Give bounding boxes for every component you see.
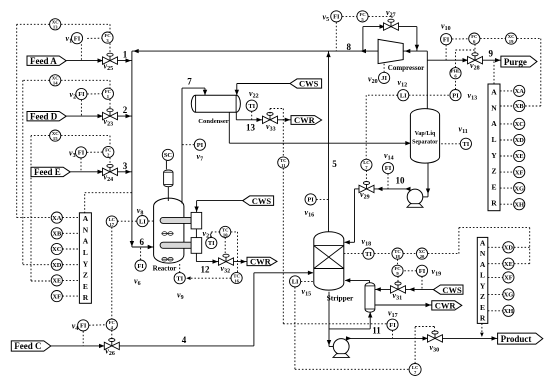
signal TI v18 to stripper <box>344 253 363 255</box>
instrument XC 15 <box>50 130 61 141</box>
wire reactor inlet line 6 <box>132 246 154 248</box>
wire separator bottoms <box>416 163 428 197</box>
flag CWR reboiler <box>432 301 462 311</box>
valve v29 <box>359 182 374 201</box>
svg-text:XD: XD <box>515 137 525 144</box>
signal analyzer to line 6 header <box>85 193 132 214</box>
instrument XC (purge analyzer) <box>514 118 525 129</box>
flag Feed C <box>11 341 51 351</box>
svg-text:12: 12 <box>201 265 211 275</box>
signal XC purge to box <box>500 123 514 125</box>
reactor cooling coil upper <box>160 217 191 223</box>
signal XB to analyzer box <box>62 232 79 234</box>
arrow feed into reboiler <box>368 312 372 318</box>
svg-text:N: N <box>83 225 89 234</box>
svg-text:XC: XC <box>515 121 525 128</box>
svg-text:A: A <box>480 238 486 247</box>
svg-text:XC: XC <box>52 246 62 253</box>
arrow vapor into stripper <box>345 278 351 282</box>
separator vessel <box>410 109 439 164</box>
flag CWS reactor <box>243 196 274 206</box>
label stream 8 <box>347 42 352 52</box>
signal FI v3 to line 3 <box>80 158 82 172</box>
flag Product <box>498 333 543 344</box>
arrow into product flag <box>492 336 498 340</box>
svg-text:TI: TI <box>208 240 215 247</box>
signal FC5 to valve v27 <box>368 16 392 19</box>
svg-text:FI: FI <box>389 322 396 329</box>
signal TC10 to TC16 <box>231 232 238 273</box>
instrument TI v18 <box>362 237 375 259</box>
svg-text:3: 3 <box>123 161 128 171</box>
arrow line 1 into recycle header <box>126 58 132 62</box>
arrow into stripper pump <box>335 344 341 348</box>
signal XG product to box <box>488 293 503 295</box>
svg-text:1: 1 <box>123 50 128 60</box>
valve v30 <box>428 331 443 353</box>
svg-text:XH: XH <box>514 201 524 208</box>
wire condenser outlet to separator <box>229 112 411 143</box>
signal XC13 to FC3 <box>61 24 110 32</box>
wire line 10 to stripper <box>345 189 360 242</box>
instrument FC 1 <box>102 88 113 99</box>
arrow line 6 into reactor <box>148 245 154 249</box>
signal PHL6 to v28 stem <box>456 50 476 68</box>
instrument XB (feed analyzer) <box>51 228 62 239</box>
svg-text:FI: FI <box>419 268 426 275</box>
svg-text:E: E <box>491 183 496 192</box>
wire feed E line 3 <box>70 171 132 173</box>
instrument FC 4 <box>106 319 117 330</box>
instrument PI v16 <box>305 194 317 219</box>
arrow into valve v25 <box>98 58 104 62</box>
instrument FI v2 <box>70 88 88 100</box>
signal TI v9 to reactor bottom <box>179 264 181 273</box>
valve v23 <box>103 109 118 128</box>
instrument LI v8 <box>137 206 148 227</box>
instrument XC 14 <box>50 75 61 86</box>
instrument FC 3 <box>102 32 113 43</box>
flag CWS condenser <box>290 79 322 89</box>
svg-text:XB: XB <box>515 103 525 110</box>
arrow into valve v31 <box>409 287 415 291</box>
instrument XF (feed analyzer) <box>51 291 62 302</box>
label Reactor <box>153 265 177 273</box>
svg-text:Feed D: Feed D <box>30 111 58 121</box>
arrow into valve v23 <box>98 114 104 118</box>
arrow into valve v32 <box>213 259 219 263</box>
svg-text:LI: LI <box>139 218 146 225</box>
svg-text:CWS: CWS <box>299 79 319 89</box>
instrument XF (product analyzer) <box>503 272 514 283</box>
arrow into valve v27 <box>380 24 386 28</box>
stripper pump <box>333 339 349 358</box>
svg-text:Reactor: Reactor <box>153 265 177 273</box>
reactor stirrer lower <box>162 257 174 261</box>
svg-text:L: L <box>491 135 496 144</box>
label stream 9 <box>489 49 494 59</box>
instrument XE (purge analyzer) <box>514 150 525 161</box>
signal XC14 to FC1 <box>61 80 110 88</box>
svg-text:17: 17 <box>110 222 115 227</box>
wire reboiler outlet to CWR <box>375 304 432 306</box>
signal XG purge to box <box>500 187 514 189</box>
label stream 4 <box>182 335 187 345</box>
svg-text:Y: Y <box>480 281 486 290</box>
svg-text:XD: XD <box>504 245 514 252</box>
analyzer box stream 9 <box>488 84 500 211</box>
svg-text:L: L <box>480 271 485 280</box>
signal LC7 to valve v30 <box>415 327 434 364</box>
arrow line 3 into recycle header <box>126 170 132 174</box>
condenser vessel <box>191 95 240 112</box>
instrument SC agitator speed <box>162 149 173 160</box>
flag CWR reactor <box>247 257 277 267</box>
analyzer box stream 11 <box>477 237 488 323</box>
wire stripper bottoms line <box>329 292 340 347</box>
signal FI v10 to FC6 <box>452 38 469 40</box>
signal TC10 to valve v32 <box>224 238 226 254</box>
instrument LC 17 <box>106 216 117 227</box>
svg-text:5: 5 <box>332 159 337 169</box>
instrument XC 19 <box>506 33 517 44</box>
arrow sep downcomer <box>426 189 430 195</box>
signal FI v17 to line 11 <box>392 330 394 338</box>
arrow line 9 into purge flag <box>495 58 501 62</box>
instrument TC 11 <box>278 157 289 168</box>
svg-text:13: 13 <box>246 123 256 133</box>
svg-text:4: 4 <box>182 335 187 345</box>
arrow into CWR reboiler <box>426 303 432 307</box>
svg-text:E: E <box>83 282 88 291</box>
signal PI v16 to line 5 <box>316 198 328 200</box>
instrument LC 7 <box>409 364 421 376</box>
instrument TC 10 <box>220 226 231 237</box>
arrow into valve v29 <box>377 187 383 191</box>
flag Feed E <box>31 167 70 177</box>
signal FI v1 to line 1 <box>80 44 82 60</box>
arrow line 13 into CWR <box>285 118 291 122</box>
instrument LI v12 <box>398 78 409 101</box>
svg-text:L: L <box>83 248 88 257</box>
arrow CWS into reboiler <box>375 287 381 291</box>
label Stripper <box>327 294 354 303</box>
label stream 2 <box>123 105 128 115</box>
arrow line 4 into stripper <box>308 271 314 275</box>
svg-text:11: 11 <box>372 326 381 336</box>
svg-text:XF: XF <box>504 275 513 282</box>
svg-text:Vap/Liq: Vap/Liq <box>415 131 436 137</box>
valve v24 <box>103 164 118 183</box>
signal LC17 to LI v8 <box>117 220 136 222</box>
arrow line 12 into CWR <box>241 259 247 263</box>
arrow into separator <box>405 141 411 145</box>
instrument FI v3 <box>69 147 87 159</box>
svg-text:Condenser: Condenser <box>198 118 228 125</box>
svg-text:XE: XE <box>52 278 61 285</box>
instrument XD (feed analyzer) <box>51 259 62 270</box>
signal XA purge to box <box>500 90 514 92</box>
signal XE product to box <box>488 263 503 265</box>
svg-text:XG: XG <box>514 185 524 192</box>
svg-text:Purge: Purge <box>504 57 527 67</box>
wire product line 11 <box>346 337 498 339</box>
agitator motor <box>164 170 173 201</box>
signal XC13 to XA <box>17 24 51 217</box>
wire condenser CW outlet line 13 <box>236 112 291 120</box>
signal FI v5 to FC5 <box>342 15 357 17</box>
svg-text:Product: Product <box>501 334 532 344</box>
signal XC19 to XB purge analyzer <box>517 39 541 106</box>
compressor <box>378 39 403 63</box>
flag CWS reboiler <box>433 285 463 295</box>
instrument XD (purge analyzer) <box>514 134 525 145</box>
svg-text:N: N <box>480 249 486 258</box>
arrow into sep pump <box>416 195 422 199</box>
wire top recycle line 8 <box>132 50 427 52</box>
wire feed D line 2 <box>66 115 132 117</box>
signal valve v33 to TC11 riser <box>270 109 283 157</box>
wire separator overhead to compressor <box>426 51 428 109</box>
arrow line 10 into stripper <box>344 240 350 244</box>
signal XE product to bus <box>514 263 530 265</box>
svg-text:A: A <box>491 119 497 128</box>
svg-text:CWS: CWS <box>442 285 462 295</box>
svg-text:XE: XE <box>504 261 513 268</box>
wire bypass line v27 <box>363 27 417 51</box>
signal TI v18 to TC18 <box>374 253 392 255</box>
instrument XB (purge analyzer) <box>514 100 525 111</box>
flag Feed A <box>27 56 66 66</box>
svg-text:TI: TI <box>176 275 183 282</box>
svg-text:Feed A: Feed A <box>30 56 57 66</box>
svg-text:9: 9 <box>489 49 494 59</box>
instrument FI v4 <box>72 320 89 332</box>
signal LI v12 to LC separator <box>366 95 397 159</box>
svg-text:14: 14 <box>53 81 58 86</box>
signal TC11 down to FI v17 row <box>283 168 387 324</box>
svg-text:XA: XA <box>515 88 525 95</box>
instrument XC (feed analyzer) <box>51 243 62 254</box>
svg-text:XF: XF <box>53 293 62 300</box>
svg-text:Z: Z <box>491 167 496 176</box>
svg-text:R: R <box>480 314 486 323</box>
svg-text:10: 10 <box>223 232 228 237</box>
arrow recycle flow left <box>133 49 139 53</box>
label stream 3 <box>123 161 128 171</box>
wire CWS to reboiler <box>375 288 434 290</box>
svg-text:A: A <box>480 260 486 269</box>
arrow bottoms down <box>327 340 331 346</box>
svg-text:XD: XD <box>52 262 62 269</box>
arrow recycle flow left of compressor <box>361 49 367 53</box>
wire CWS to coil header <box>197 201 243 212</box>
svg-text:R: R <box>83 293 89 302</box>
valve v31 <box>391 282 406 302</box>
coil header lower <box>191 238 202 254</box>
svg-text:LI: LI <box>292 279 299 286</box>
arrow bypass down to suction <box>415 45 419 51</box>
svg-text:Separator: Separator <box>412 140 438 146</box>
signal analyzer9 to purge line <box>493 60 495 84</box>
arrow into valve v33 <box>257 118 263 122</box>
instrument XD (product analyzer) <box>503 242 514 253</box>
coil header upper <box>191 212 202 229</box>
signal PI v13 to PHL6 <box>455 79 457 90</box>
svg-text:LI: LI <box>400 92 407 99</box>
arrow into valve v26 <box>99 344 105 348</box>
svg-text:Compressor: Compressor <box>388 64 424 72</box>
valve v33 <box>263 112 278 132</box>
instrument XG (product analyzer) <box>503 289 514 300</box>
signal XA to analyzer box <box>62 217 79 219</box>
svg-text:XF: XF <box>515 169 524 176</box>
reactor cooling coil lower <box>160 242 191 248</box>
svg-text:TI: TI <box>248 103 255 110</box>
instrument XE (product analyzer) <box>503 258 514 269</box>
signal XE to analyzer box <box>62 279 79 281</box>
svg-text:N: N <box>491 103 497 112</box>
svg-text:PI: PI <box>307 197 314 204</box>
signal LI v15 to stripper <box>301 280 314 282</box>
stripper packing section <box>314 246 344 269</box>
wire stripper to reboiler feed <box>329 312 370 329</box>
arrow line 11 from pump <box>346 336 352 340</box>
svg-text:Stripper: Stripper <box>327 294 354 303</box>
arrow line 5 into line 8 <box>326 52 330 58</box>
wire recycle header vertical <box>131 51 133 247</box>
arrow header down to reactor <box>130 241 134 247</box>
arrow line 10 from pump <box>405 187 411 191</box>
signal FC6 to valve v28 <box>474 44 476 52</box>
svg-text:8: 8 <box>347 42 352 52</box>
svg-text:20: 20 <box>420 254 425 259</box>
label stream 12 <box>201 265 211 275</box>
wire coil outlet line 12 <box>196 253 247 261</box>
svg-text:FI: FI <box>137 263 144 270</box>
svg-text:XH: XH <box>504 308 514 315</box>
svg-text:XA: XA <box>52 215 62 222</box>
arrow into compressor <box>405 49 411 53</box>
signal LC17 to FC4 <box>111 227 113 319</box>
signal LI v12 to PI v13 <box>409 94 450 96</box>
label v21 <box>203 229 213 240</box>
wire line 10 pump to v29 <box>374 188 409 190</box>
svg-text:XB: XB <box>52 231 62 238</box>
signal FC9 to valve v31 <box>397 276 399 282</box>
instrument XA (purge analyzer) <box>514 85 525 96</box>
instrument FI v10 <box>441 22 452 45</box>
svg-text:A: A <box>491 88 497 97</box>
label stream 1 <box>123 50 128 60</box>
wire purge line 9 <box>427 59 501 61</box>
instrument TI v9 <box>174 273 185 301</box>
flag Purge <box>501 56 537 67</box>
svg-text:Z: Z <box>480 292 485 301</box>
signal FC4 to valve v26 <box>111 330 113 338</box>
signal FI v5 to line 8 <box>335 22 337 51</box>
label stream 11 <box>372 326 381 336</box>
instrument FI v19 <box>416 265 441 277</box>
valve v25 <box>103 53 118 72</box>
instrument TI v22 <box>246 89 258 111</box>
svg-text:CWS: CWS <box>252 196 272 206</box>
instrument JI v20 <box>368 72 390 85</box>
signal FI v3 to FC2 <box>87 151 103 153</box>
arrow CWS into header <box>194 207 198 213</box>
instrument FC 5 <box>357 11 368 22</box>
svg-text:TI: TI <box>365 251 372 258</box>
flag CWR condenser <box>291 115 322 125</box>
label Vap/Liq Separator <box>412 131 438 145</box>
instrument PI v7 <box>194 139 205 162</box>
signal XD to analyzer box <box>62 264 79 266</box>
wire feed A line 1 <box>66 60 132 62</box>
svg-text:FI: FI <box>80 323 87 330</box>
instrument PI v13 <box>450 90 477 102</box>
svg-text:FI: FI <box>385 165 392 172</box>
instrument FI v17 <box>387 309 398 331</box>
instrument TC 16 <box>231 272 242 283</box>
signal FI v19 to CWS line <box>421 276 423 289</box>
arrow line 7 into condenser <box>203 90 207 96</box>
signal LI v8 to reactor <box>148 220 153 222</box>
label Compressor <box>388 64 424 72</box>
analyzer box stream 6 <box>79 213 91 303</box>
label stream 5 <box>332 159 337 169</box>
svg-text:CWR: CWR <box>250 257 272 267</box>
instrument FI v6 <box>134 260 146 287</box>
instrument XH (product analyzer) <box>503 305 514 316</box>
label stream 7 <box>187 77 192 87</box>
svg-text:JI: JI <box>381 75 387 82</box>
signal XF purge to box <box>500 171 514 173</box>
wire CWS to condenser <box>237 84 290 96</box>
signal PI v7 to line 7 <box>182 144 194 146</box>
label stream 6 <box>140 237 145 247</box>
instrument XA (feed analyzer) <box>51 212 62 223</box>
instrument LI v15 <box>290 276 312 298</box>
instrument XF (purge analyzer) <box>514 167 525 178</box>
svg-text:CWR: CWR <box>294 115 316 125</box>
svg-text:13: 13 <box>53 25 58 30</box>
instrument PHL 6 <box>450 68 461 79</box>
svg-text:CWR: CWR <box>435 301 457 311</box>
signal FI v2 to line 2 <box>80 100 82 116</box>
svg-text:Z: Z <box>83 271 88 280</box>
signal FI v2 to FC1 <box>87 93 102 95</box>
svg-text:FI: FI <box>333 14 340 21</box>
svg-text:2: 2 <box>123 105 128 115</box>
arrow into valve v24 <box>98 170 104 174</box>
separator pump <box>407 189 423 207</box>
svg-text:FI: FI <box>74 35 81 42</box>
svg-text:16: 16 <box>234 278 239 283</box>
signal LC to valve v29 <box>365 170 367 181</box>
signal TI v11 to separator <box>439 143 460 145</box>
svg-text:Feed C: Feed C <box>14 341 41 351</box>
instrument XG (purge analyzer) <box>514 183 525 194</box>
instrument TC 18 <box>392 248 403 259</box>
svg-text:15: 15 <box>53 136 58 141</box>
signal XF to analyzer box <box>62 295 79 297</box>
signal XD product to box <box>488 246 503 248</box>
instrument FI v14 <box>382 151 393 174</box>
signal XC20 to product analyzer bus <box>428 228 530 264</box>
reboiler <box>365 283 375 312</box>
svg-text:TI: TI <box>463 141 470 148</box>
signal TI v22 to line 13 <box>251 111 253 120</box>
